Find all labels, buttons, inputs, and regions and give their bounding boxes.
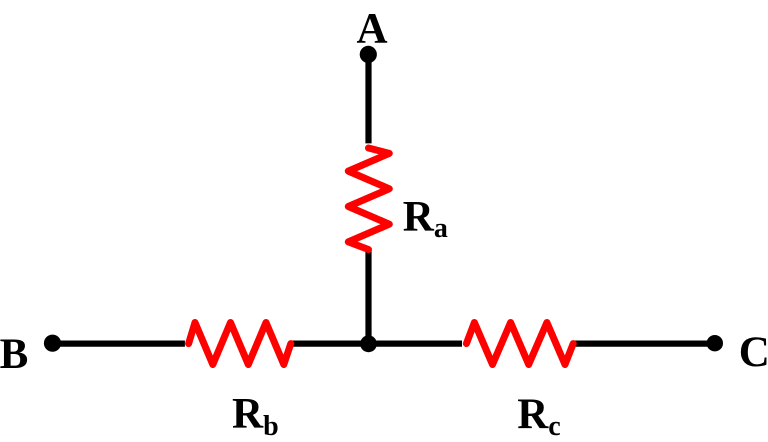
resistor Rb bbox=[189, 323, 291, 365]
center junction dot bbox=[360, 335, 377, 352]
wire resistor Ra bottom to center junction bbox=[365, 250, 371, 343]
svg-text:C: C bbox=[739, 329, 768, 376]
wire resistor Rb right to center junction bbox=[292, 341, 369, 347]
node B terminal dot bbox=[44, 335, 61, 352]
node C terminal dot bbox=[707, 335, 723, 351]
resistor Ra bbox=[348, 148, 389, 250]
svg-text:A: A bbox=[356, 6, 387, 53]
wire node B to resistor Rb left bbox=[53, 341, 185, 347]
wire node A to resistor Ra top bbox=[365, 54, 371, 143]
wire resistor Rc right to node C bbox=[575, 341, 715, 347]
svg-text:B: B bbox=[0, 331, 28, 378]
wire center junction to resistor Rc left bbox=[369, 341, 463, 347]
node A terminal dot bbox=[360, 46, 377, 63]
resistor Rc bbox=[466, 323, 573, 365]
